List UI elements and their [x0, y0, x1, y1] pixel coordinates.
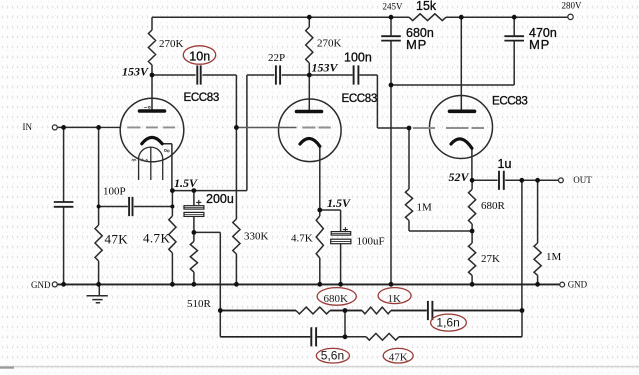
svg-text:47K: 47K: [105, 232, 129, 247]
svg-text:510R: 510R: [187, 298, 212, 310]
svg-text:1M: 1M: [546, 251, 562, 263]
svg-text:ECC83: ECC83: [342, 92, 377, 105]
svg-text:100P: 100P: [103, 185, 126, 197]
svg-text:1,6n: 1,6n: [436, 316, 459, 330]
svg-text:GND: GND: [568, 280, 588, 290]
svg-text:1M: 1M: [417, 202, 433, 214]
svg-text:1u: 1u: [498, 157, 512, 171]
svg-text:22P: 22P: [268, 52, 285, 64]
svg-text:153V: 153V: [312, 61, 339, 75]
svg-text:280V: 280V: [562, 1, 583, 11]
svg-text:4.7K: 4.7K: [291, 233, 313, 245]
svg-text:100n: 100n: [344, 51, 372, 65]
svg-text:1.5V: 1.5V: [327, 196, 351, 210]
svg-text:245V: 245V: [383, 2, 404, 12]
svg-text:4.7K: 4.7K: [143, 231, 170, 246]
svg-text:680R: 680R: [481, 200, 506, 212]
svg-text:100uF: 100uF: [357, 236, 385, 248]
svg-text:200u: 200u: [206, 192, 234, 206]
svg-text:15k: 15k: [416, 0, 437, 13]
svg-text:1K: 1K: [388, 293, 402, 305]
svg-text:270K: 270K: [159, 38, 184, 50]
svg-text:MP: MP: [529, 37, 550, 52]
svg-text:1.5V: 1.5V: [174, 176, 198, 190]
svg-text:ECC83: ECC83: [492, 94, 527, 107]
svg-text:10n: 10n: [189, 50, 210, 64]
svg-text:52V: 52V: [449, 170, 470, 184]
svg-text:MP: MP: [406, 37, 427, 52]
svg-text:27K: 27K: [481, 253, 500, 265]
svg-text:OUT: OUT: [573, 175, 592, 185]
svg-text:270K: 270K: [317, 38, 342, 50]
svg-text:47K: 47K: [389, 351, 408, 363]
svg-text:IN: IN: [23, 122, 33, 132]
svg-text:680K: 680K: [324, 293, 349, 305]
svg-text:330K: 330K: [244, 231, 269, 243]
svg-text:GND: GND: [31, 280, 51, 290]
svg-text:ECC83: ECC83: [184, 91, 219, 104]
svg-text:5,6n: 5,6n: [321, 349, 344, 363]
svg-text:153V: 153V: [122, 65, 149, 79]
